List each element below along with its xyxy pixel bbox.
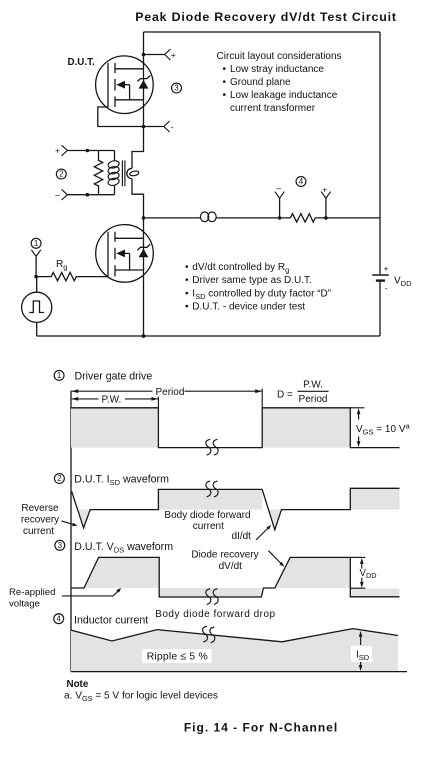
battery VDD: [372, 264, 412, 293]
wf4 bottom line: [71, 671, 407, 673]
wire main vertical bus: [132, 32, 144, 336]
svg-text:D.U.T. - device under test: D.U.T. - device under test: [192, 302, 305, 313]
svg-text:VDD: VDD: [360, 568, 377, 580]
label dI/dt: [232, 525, 272, 542]
label body diode forward current: [164, 510, 250, 532]
formula D = P.W. / Period: [277, 379, 329, 405]
svg-text:•: •: [185, 302, 189, 313]
svg-text:Body diode forward drop: Body diode forward drop: [155, 609, 275, 620]
wf3 gray fills: [84, 557, 400, 597]
svg-text:ISD controlled by duty factor: ISD controlled by duty factor “D”: [192, 288, 331, 301]
svg-text:Circuit layout considerations: Circuit layout considerations: [217, 51, 342, 62]
svg-text:•: •: [185, 262, 189, 273]
svg-text:Body diode forward: Body diode forward: [164, 510, 250, 521]
wire phase to inductor: [144, 217, 201, 219]
probe - of node 4: [275, 183, 284, 220]
wf1 break symbol: [206, 439, 218, 455]
text circuit layout considerations: [217, 51, 342, 114]
svg-text:2: 2: [57, 474, 61, 483]
mosfet driver: [96, 225, 154, 283]
wf4 gray fill: [71, 629, 398, 671]
label reverse recovery current: [21, 503, 78, 537]
annotation VGS = 10 V: [350, 408, 410, 447]
svg-text:Note: Note: [67, 679, 89, 690]
svg-text:VDD: VDD: [394, 276, 412, 289]
wire inductor to resistor: [216, 217, 290, 219]
svg-text:Rg: Rg: [56, 259, 67, 272]
node 2 waveform marker: [54, 474, 169, 488]
svg-text:–: –: [276, 183, 281, 193]
label diode recovery dV/dt: [191, 550, 284, 572]
svg-text:VGS = 10 Va: VGS = 10 Va: [356, 421, 410, 436]
note a: [64, 691, 218, 703]
svg-text:2: 2: [59, 170, 63, 179]
svg-text:dI/dt: dI/dt: [232, 531, 252, 542]
svg-text:Period: Period: [299, 394, 328, 405]
svg-text:D.U.T. VDS waveform: D.U.T. VDS waveform: [74, 541, 173, 555]
svg-text:current: current: [193, 521, 224, 532]
svg-text:Inductor current: Inductor current: [74, 614, 148, 626]
transformer CT core: [122, 161, 125, 187]
node source probe -: [142, 121, 174, 132]
svg-text:4: 4: [57, 614, 62, 623]
svg-text:Period: Period: [156, 387, 185, 398]
svg-text:Low leakage inductance: Low leakage inductance: [230, 90, 338, 101]
annotation VDD: [350, 557, 376, 588]
svg-text:P.W.: P.W.: [102, 395, 122, 406]
wf3 trace: [72, 557, 400, 597]
waveform axis: [70, 391, 72, 672]
svg-text:D.U.T.: D.U.T.: [68, 57, 95, 68]
node phase junction: [142, 216, 146, 220]
svg-text:1: 1: [57, 371, 61, 380]
probe + of node 4: [321, 185, 330, 220]
node 1 waveform marker: [54, 370, 152, 382]
label ripple: [142, 649, 212, 663]
probe of node 1: [31, 250, 40, 279]
dimension P.W.: [72, 395, 158, 406]
svg-text:dV/dt controlled by Rg: dV/dt controlled by Rg: [192, 262, 289, 275]
svg-text:1: 1: [34, 239, 38, 248]
svg-text:recovery: recovery: [21, 514, 59, 525]
wf1 gray fill pulse2: [262, 408, 350, 448]
mosfet D.U.T.: [96, 56, 154, 114]
svg-text:–: –: [55, 190, 60, 200]
wf4 trace: [71, 629, 398, 642]
wf1 edge extensions: [158, 389, 262, 408]
svg-text:3: 3: [58, 541, 62, 550]
resistor Rg: [36, 259, 108, 281]
node 4 waveform marker: [54, 614, 148, 627]
resistor node4 sense: [290, 214, 315, 222]
svg-text:Diode recovery: Diode recovery: [191, 550, 258, 561]
wf3 break symbol: [206, 589, 218, 605]
node 2 marker: [56, 169, 66, 179]
wf4 break symbol: [203, 626, 215, 643]
wire right rail upper: [379, 32, 381, 274]
D.U.T. gate-source loop wire: [98, 107, 144, 127]
svg-text:•: •: [185, 288, 189, 299]
wf1 gray fill pulse1: [71, 408, 158, 448]
node 4 marker: [296, 177, 306, 187]
probe + of node 2: [55, 145, 115, 156]
resistor CT burden: [94, 151, 102, 195]
svg-text:Low stray inductance: Low stray inductance: [230, 64, 324, 75]
label D.U.T.: [68, 57, 95, 68]
svg-text:•: •: [223, 90, 227, 101]
svg-text:Driver same type as D.U.T.: Driver same type as D.U.T.: [192, 275, 311, 286]
svg-text:Fig. 14 - For N-Channel: Fig. 14 - For N-Channel: [184, 721, 338, 735]
wire bottom rail: [37, 335, 380, 337]
svg-text:dV/dt: dV/dt: [219, 561, 243, 572]
probe - of node 2: [55, 189, 114, 200]
text circuit bullet notes: [185, 262, 331, 313]
inductor L: [200, 212, 216, 222]
svg-text:Reverse: Reverse: [21, 503, 59, 514]
node drain probe +: [142, 49, 176, 60]
svg-text:3: 3: [174, 84, 178, 93]
wf2 trace: [72, 488, 400, 530]
svg-text:Driver gate drive: Driver gate drive: [75, 371, 153, 383]
annotation ISD: [351, 631, 372, 671]
svg-text:•: •: [223, 64, 227, 75]
svg-text:•: •: [185, 275, 189, 286]
svg-text:current: current: [23, 526, 54, 537]
svg-text:Ground plane: Ground plane: [230, 77, 291, 88]
svg-text:4: 4: [299, 177, 304, 186]
note heading: [67, 679, 89, 690]
body diode of D.U.T.: [137, 75, 150, 88]
svg-text:-: -: [385, 283, 388, 293]
svg-text:Re-applied: Re-applied: [9, 587, 55, 598]
svg-text:-: -: [171, 122, 174, 132]
svg-text:D =: D =: [277, 390, 293, 401]
svg-text:Ripple ≤ 5 %: Ripple ≤ 5 %: [147, 651, 208, 662]
wf2 gray fills: [79, 488, 400, 530]
svg-text:P.W.: P.W.: [303, 379, 323, 390]
svg-text:Peak Diode Recovery dV/dt Test: Peak Diode Recovery dV/dt Test Circuit: [135, 10, 397, 24]
caption Fig. 14: [184, 721, 338, 735]
svg-text:+: +: [55, 146, 60, 156]
node 3 marker: [172, 83, 182, 93]
svg-text:current transformer: current transformer: [230, 103, 316, 114]
dimension Period: [72, 387, 262, 398]
transformer CT primary winding: [107, 151, 120, 195]
label body diode forward drop: [155, 609, 275, 620]
pulse generator: [22, 277, 52, 336]
transformer CT secondary single turn: [127, 168, 139, 178]
svg-text:a. VGS = 5 V for logic level d: a. VGS = 5 V for logic level devices: [64, 691, 218, 703]
label re-applied voltage: [9, 587, 121, 610]
body diode of driver: [137, 244, 150, 257]
node 3 waveform marker: [55, 540, 173, 554]
wf2 break symbol: [206, 481, 218, 497]
title: [135, 10, 397, 24]
svg-text:voltage: voltage: [9, 598, 40, 609]
node bottom rail junction: [142, 334, 146, 338]
wire right rail lower: [379, 282, 381, 336]
wf1 trace: [71, 408, 400, 448]
wire top rail: [144, 31, 381, 33]
svg-text:•: •: [223, 77, 227, 88]
wire resistor to right rail: [315, 217, 380, 219]
svg-text:D.U.T. ISD waveform: D.U.T. ISD waveform: [74, 474, 169, 488]
node 1 marker: [31, 238, 41, 248]
svg-text:+: +: [384, 264, 389, 274]
svg-text:+: +: [171, 50, 176, 60]
svg-text:+: +: [322, 185, 327, 195]
